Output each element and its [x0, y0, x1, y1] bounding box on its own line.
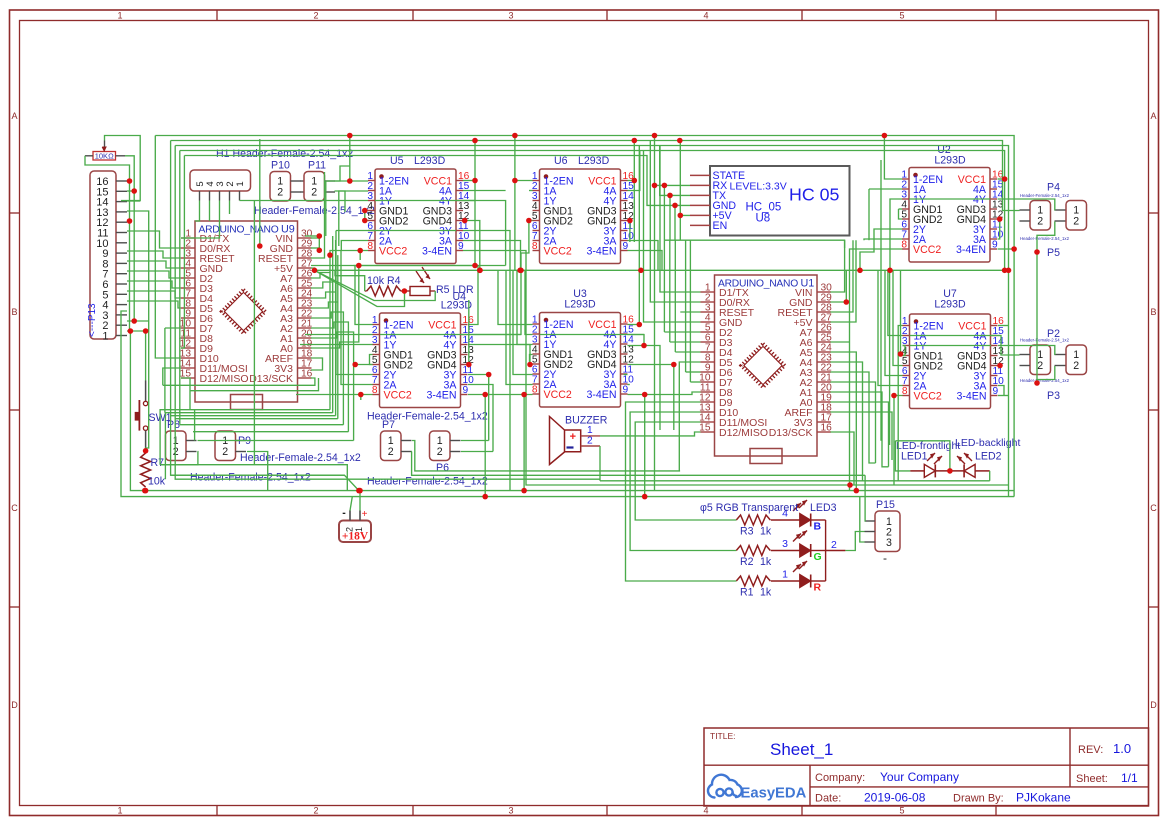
wire — [890, 199, 902, 270]
wire — [325, 181, 327, 236]
wire — [998, 336, 1020, 356]
wire — [868, 189, 870, 240]
svg-text:D13/SCK: D13/SCK — [769, 427, 813, 439]
wire — [679, 362, 700, 471]
wire — [893, 270, 903, 365]
svg-text:16: 16 — [301, 369, 313, 380]
junction — [482, 392, 488, 398]
wire — [850, 484, 1009, 486]
wire — [468, 266, 478, 325]
wire — [506, 270, 533, 384]
wire — [517, 270, 533, 344]
svg-text:2: 2 — [313, 11, 318, 21]
wire — [209, 201, 211, 222]
wire — [365, 210, 368, 212]
svg-text:+18V: +18V — [342, 531, 369, 543]
wire — [181, 201, 220, 239]
wire — [335, 166, 350, 181]
svg-text:15: 15 — [699, 423, 711, 434]
wire — [1037, 222, 1055, 253]
svg-text:+: + — [362, 509, 368, 520]
wire — [130, 331, 1014, 491]
wire — [831, 362, 863, 481]
junction — [1002, 176, 1008, 182]
LED LED2 — [955, 437, 1020, 477]
wire — [360, 395, 362, 401]
wire — [635, 422, 736, 520]
wire — [674, 205, 676, 240]
wire — [315, 270, 436, 300]
svg-text:3: 3 — [508, 11, 513, 21]
wire — [336, 230, 375, 232]
svg-text:U6: U6 — [554, 155, 568, 167]
wire — [664, 240, 844, 248]
wire — [529, 190, 533, 192]
junction — [402, 288, 408, 294]
wire — [644, 151, 701, 323]
wire — [903, 346, 906, 356]
svg-text:L293D: L293D — [934, 155, 966, 167]
svg-text:3-4EN: 3-4EN — [956, 391, 986, 403]
svg-text:LED3: LED3 — [810, 502, 837, 514]
wire — [171, 141, 1020, 211]
svg-text:3-4EN: 3-4EN — [586, 246, 616, 258]
wire — [463, 221, 480, 271]
junction — [898, 351, 904, 357]
wire — [253, 201, 255, 465]
svg-text:4: 4 — [703, 806, 708, 816]
wire — [161, 452, 198, 465]
junction — [512, 178, 518, 184]
svg-text:P3: P3 — [1047, 390, 1060, 402]
buzzer BZ1 — [550, 415, 608, 465]
wire — [461, 451, 493, 453]
junction — [143, 328, 149, 334]
wire — [311, 312, 343, 425]
wire — [463, 190, 506, 192]
junction — [887, 268, 893, 274]
wire — [498, 270, 533, 324]
junction — [482, 494, 488, 500]
junction — [997, 363, 1003, 369]
junction — [947, 468, 953, 474]
wire — [894, 396, 903, 486]
IC U2 L293D — [901, 168, 1003, 263]
junction — [362, 218, 368, 224]
junction — [358, 392, 364, 398]
svg-text:1: 1 — [117, 11, 122, 21]
junction — [521, 392, 527, 398]
svg-text:Header-Female-2.54_1x2: Header-Female-2.54_1x2 — [1020, 193, 1070, 198]
wire — [599, 446, 601, 481]
wire — [318, 236, 320, 250]
svg-text:Company:: Company: — [815, 772, 865, 784]
potentiometer 10KOhm — [85, 141, 125, 161]
junction — [362, 208, 368, 214]
wire — [365, 211, 368, 221]
wire — [339, 191, 368, 246]
wire — [311, 240, 336, 298]
wire — [628, 392, 701, 395]
wire — [461, 440, 489, 442]
connector P11 header 1x2 — [304, 172, 335, 202]
junction — [882, 133, 888, 139]
junction — [638, 268, 644, 274]
junction — [356, 263, 362, 269]
wire — [468, 385, 493, 452]
svg-text:-: - — [342, 507, 346, 519]
wire — [127, 281, 181, 288]
wire — [831, 240, 857, 322]
svg-text:2: 2 — [277, 187, 283, 199]
svg-text:3-4EN: 3-4EN — [422, 246, 452, 258]
wire — [880, 160, 882, 441]
wire — [468, 345, 530, 366]
wire — [355, 266, 373, 325]
wire — [831, 382, 876, 463]
svg-text:2: 2 — [222, 446, 228, 458]
wire — [885, 270, 903, 375]
svg-text:B: B — [814, 521, 822, 533]
wire — [311, 265, 478, 267]
wire — [239, 200, 241, 202]
wire — [311, 255, 338, 308]
svg-text:<---P13: <---P13 — [87, 303, 98, 337]
svg-text:EasyEDA: EasyEDA — [741, 786, 807, 802]
wire — [910, 345, 992, 347]
wire — [831, 240, 845, 292]
junction — [517, 268, 523, 274]
wire — [831, 352, 857, 491]
wire — [998, 218, 1000, 220]
svg-text:LED1: LED1 — [901, 451, 928, 463]
junction — [312, 268, 318, 274]
IC U3 L293D — [532, 313, 634, 408]
junction — [317, 248, 323, 254]
junction — [642, 392, 648, 398]
wire — [463, 180, 475, 182]
svg-text:HC 05: HC 05 — [789, 185, 840, 205]
wire — [127, 220, 130, 222]
wire — [198, 440, 354, 442]
wire — [463, 251, 850, 486]
junction — [357, 248, 363, 254]
wire — [229, 201, 231, 215]
wire — [680, 141, 690, 216]
wire — [628, 384, 630, 386]
junction — [662, 183, 668, 189]
wire — [180, 151, 181, 339]
wire — [628, 251, 663, 271]
wire — [163, 368, 181, 385]
wire — [127, 231, 181, 248]
wire — [468, 375, 489, 441]
junction — [486, 372, 492, 378]
wire — [888, 270, 903, 335]
wire — [900, 270, 902, 354]
wire — [463, 231, 510, 491]
connector P15 header 1x3 — [865, 511, 901, 565]
svg-text:2: 2 — [1073, 360, 1079, 372]
wire — [311, 237, 319, 239]
wire — [311, 332, 354, 441]
resistor R1 1k — [736, 576, 770, 586]
wire — [664, 331, 700, 333]
junction — [317, 233, 323, 239]
wire — [864, 239, 902, 240]
wire — [831, 270, 847, 302]
wire — [899, 208, 903, 210]
wire — [895, 441, 950, 471]
junction — [466, 362, 472, 368]
wire — [530, 364, 533, 366]
svg-text:R: R — [814, 582, 822, 594]
wire — [629, 221, 631, 243]
svg-text:Header-Female-2.54_1x2: Header-Female-2.54_1x2 — [240, 452, 361, 464]
wire — [359, 251, 361, 261]
wire — [165, 327, 181, 329]
wire — [628, 241, 659, 271]
wire — [998, 395, 1009, 397]
svg-text:Header-Female-2.54_1x2: Header-Female-2.54_1x2 — [1020, 338, 1070, 343]
junction — [352, 362, 358, 368]
wire — [311, 172, 325, 258]
svg-text:EN: EN — [713, 220, 728, 232]
junction — [142, 488, 148, 494]
wire — [513, 270, 533, 374]
wire — [540, 334, 645, 336]
svg-text:2: 2 — [1037, 216, 1043, 228]
junction — [356, 488, 362, 494]
junction — [1002, 268, 1008, 274]
connector P2a header 1x2 — [1020, 345, 1051, 375]
svg-text:R2: R2 — [740, 556, 754, 568]
svg-text:U5: U5 — [390, 155, 404, 167]
junction — [518, 268, 524, 274]
svg-text:Sheet:: Sheet: — [1076, 773, 1108, 785]
junction — [477, 268, 483, 274]
module U8 HC_05 — [690, 166, 850, 236]
EasyEDA logo — [708, 775, 742, 798]
svg-text:-: - — [883, 551, 887, 565]
IC U4 L293D — [372, 313, 474, 408]
svg-text:φ5 RGB Transparent: φ5 RGB Transparent — [700, 502, 798, 514]
wire — [315, 269, 1009, 271]
wire — [335, 270, 365, 291]
svg-text:1: 1 — [117, 806, 122, 816]
wire — [831, 392, 889, 467]
svg-text:8: 8 — [367, 241, 373, 252]
junction — [131, 318, 137, 324]
wire — [878, 270, 903, 385]
wire — [675, 351, 700, 353]
wire — [663, 240, 665, 332]
svg-text:VCC2: VCC2 — [379, 246, 407, 258]
wire — [468, 270, 521, 334]
connector H1 header 1x5 — [190, 170, 251, 201]
wire — [628, 335, 645, 346]
svg-text:D12/MISO: D12/MISO — [200, 373, 249, 385]
wire — [655, 184, 691, 186]
svg-text:C: C — [1150, 503, 1157, 513]
wire — [155, 136, 181, 359]
wire — [300, 344, 373, 346]
junction — [347, 178, 353, 184]
svg-text:8: 8 — [902, 386, 908, 397]
svg-text:5: 5 — [899, 11, 904, 21]
wire — [686, 371, 701, 373]
svg-text:3: 3 — [886, 537, 892, 549]
wire — [190, 378, 319, 391]
junction — [527, 362, 533, 368]
wire — [121, 311, 352, 497]
IC U7 L293D — [902, 314, 1004, 409]
wire — [628, 180, 635, 182]
LED LED1 — [896, 440, 964, 477]
wire — [831, 432, 855, 485]
wire — [175, 146, 600, 480]
wire — [127, 271, 181, 278]
resistor R7 10k — [141, 453, 151, 487]
svg-text:B: B — [11, 307, 17, 317]
junction — [652, 133, 658, 139]
wire — [1037, 366, 1055, 383]
svg-text:1k: 1k — [760, 526, 772, 538]
wire — [521, 221, 533, 254]
wire — [628, 151, 640, 191]
svg-text:TITLE:: TITLE: — [710, 731, 736, 741]
wire — [845, 532, 864, 551]
title block — [704, 728, 1149, 806]
wire — [127, 331, 146, 381]
svg-text:2: 2 — [311, 187, 317, 199]
wire — [163, 378, 315, 385]
svg-text:D: D — [11, 700, 18, 710]
wire — [85, 156, 130, 331]
svg-text:8: 8 — [372, 385, 378, 396]
svg-text:3-4EN: 3-4EN — [426, 390, 456, 402]
wire — [650, 141, 700, 303]
wire — [329, 273, 331, 410]
svg-text:8: 8 — [901, 240, 907, 251]
wire — [127, 251, 181, 258]
wire — [831, 240, 854, 312]
svg-text:2: 2 — [831, 539, 837, 551]
wire — [998, 365, 1000, 367]
connector P9 header 1x2 — [215, 431, 246, 461]
wire — [240, 200, 369, 202]
svg-text:3: 3 — [508, 806, 513, 816]
wire — [171, 141, 345, 476]
svg-text:10KΩ: 10KΩ — [95, 152, 114, 161]
svg-text:P4: P4 — [1047, 182, 1060, 194]
IC U9 ARDUINO_NANO — [180, 221, 313, 410]
wire — [998, 346, 1055, 356]
wire — [467, 300, 470, 365]
wire — [305, 235, 319, 237]
wire — [375, 230, 456, 232]
wire — [600, 480, 990, 482]
svg-text:2: 2 — [1037, 360, 1043, 372]
wire — [898, 326, 902, 481]
wire — [899, 209, 903, 219]
wire — [850, 249, 903, 491]
wire — [669, 195, 671, 240]
wire — [690, 381, 700, 383]
junction — [847, 482, 853, 488]
junction — [462, 218, 468, 224]
connector P10 header 1x2 — [270, 172, 301, 202]
junction — [347, 133, 353, 139]
IC U1 ARDUINO_NANO — [699, 275, 832, 464]
wire — [311, 322, 348, 432]
svg-text:U8: U8 — [756, 213, 771, 225]
svg-text:L293D: L293D — [578, 155, 610, 167]
svg-text:VCC2: VCC2 — [913, 244, 941, 256]
wire — [515, 180, 533, 182]
svg-text:1.0: 1.0 — [1113, 741, 1131, 756]
svg-text:P11: P11 — [308, 160, 326, 172]
wire — [674, 240, 676, 352]
svg-text:9: 9 — [992, 240, 998, 251]
wire — [315, 270, 405, 306]
wire — [352, 496, 1014, 498]
svg-text:Sheet_1: Sheet_1 — [770, 740, 833, 759]
svg-text:Header-Female-2.54_1x2: Header-Female-2.54_1x2 — [367, 476, 488, 488]
wire — [989, 471, 991, 481]
wire — [350, 497, 352, 511]
wire — [311, 236, 333, 288]
junction — [143, 488, 149, 494]
svg-text:L293D: L293D — [934, 299, 966, 311]
wire — [330, 251, 368, 256]
wire — [884, 136, 902, 180]
svg-text:P8: P8 — [167, 419, 180, 431]
wire — [889, 270, 891, 445]
wire — [412, 441, 680, 471]
wire — [341, 241, 368, 251]
IC U5 L293D — [367, 169, 469, 264]
wire — [311, 268, 315, 270]
svg-text:R5 LDR: R5 LDR — [436, 284, 474, 296]
wire — [860, 497, 865, 542]
junction — [641, 343, 647, 349]
svg-text:2: 2 — [587, 436, 593, 447]
connector P8 header 1x2 — [166, 431, 197, 461]
wire — [180, 424, 344, 426]
wire — [864, 475, 867, 521]
svg-text:P10: P10 — [271, 160, 290, 172]
resistor R5 LDR — [404, 267, 474, 296]
svg-text:G: G — [814, 551, 822, 563]
junction — [652, 183, 658, 189]
junction — [526, 218, 532, 224]
wire — [127, 301, 181, 308]
resistor R4 10k — [367, 286, 401, 296]
wire — [474, 141, 476, 266]
wire — [412, 452, 865, 476]
wire — [514, 136, 516, 271]
junction — [632, 178, 638, 184]
wire — [910, 335, 1001, 337]
wire — [341, 250, 373, 385]
wire — [463, 241, 521, 271]
wire — [171, 415, 336, 417]
wire — [326, 180, 350, 182]
svg-text:+: + — [570, 431, 576, 443]
wire — [463, 200, 475, 202]
switch SW1 — [135, 381, 171, 451]
